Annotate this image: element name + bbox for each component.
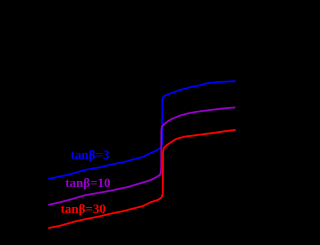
label tanb=10: [65, 176, 110, 189]
curve tanb=3 (blue): [49, 81, 235, 179]
curve tanb=30 (red): [49, 130, 235, 228]
curve tanb=10 (purple): [49, 108, 235, 205]
label tanb=30: [61, 202, 106, 215]
label tanb=3: [71, 148, 110, 161]
